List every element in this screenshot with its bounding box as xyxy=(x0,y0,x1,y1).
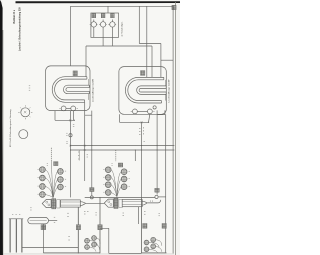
starter S3 xyxy=(108,13,116,37)
hatched strip xyxy=(52,199,56,209)
bottom right holder cluster xyxy=(142,197,167,253)
funnel xyxy=(42,200,51,208)
starter box xyxy=(91,13,119,37)
bus y46 xyxy=(86,45,152,47)
svg-text:an Vorschaltger.: an Vorschaltger. xyxy=(121,21,124,36)
wire: top to starter box xyxy=(107,6,109,13)
terminal circle right rail lower xyxy=(155,195,158,198)
scan left black edge xyxy=(0,0,3,255)
junction lamp1 xyxy=(69,119,75,121)
hatched label below pill xyxy=(41,225,46,230)
scan top black line xyxy=(16,1,181,3)
exit wires xyxy=(80,202,86,206)
lamp holders box 2 xyxy=(131,109,155,114)
label on right drop xyxy=(155,188,159,192)
assorted annotation specks xyxy=(12,86,160,216)
connector assembly right xyxy=(104,198,161,208)
svg-text:Beiblatt 30 a: Beiblatt 30 a xyxy=(13,9,16,23)
page right border xyxy=(174,2,177,255)
wire: lamp2 right hook xyxy=(157,110,165,114)
hatched strip xyxy=(114,198,118,208)
wire: top vertical into lamp box 2 xyxy=(146,6,148,77)
tiny pin number specks left fan xyxy=(38,164,67,195)
wire: box1 left drop to junction xyxy=(55,111,75,121)
bus y43.5 with corner down xyxy=(139,44,161,78)
wire: lamp2 junction drop xyxy=(141,122,143,197)
junction lamp2 xyxy=(141,121,150,123)
fluorescent U-tube lamp 2 xyxy=(125,77,166,103)
bottom middle holder cluster xyxy=(43,213,141,253)
wire: bus corner down into lamp box 1 xyxy=(85,46,87,77)
lamp box 2 xyxy=(119,67,166,115)
wire: second feed lamp box 2 xyxy=(151,46,153,77)
starter S2 xyxy=(99,13,107,37)
symbol: plain circle xyxy=(19,130,28,139)
wire: lamp1 bottom arm long drop xyxy=(84,102,86,181)
wire: right assembly drop xyxy=(138,207,140,224)
svg-text:Leuchte f. Beleuchtungseinrich: Leuchte f. Beleuchtungseinrichtung 539 xyxy=(18,7,21,51)
wire: hook drop to bottom bus xyxy=(91,115,93,196)
fan left: pin circles xyxy=(40,167,64,198)
label on hook drop xyxy=(90,188,94,192)
junction dots on buses xyxy=(70,145,158,151)
terminal circle on bottom bus xyxy=(90,196,93,199)
connector assembly left xyxy=(42,199,104,209)
svg-text:BV 97a Bl.1 Beleuchtungseinr.: BV 97a Bl.1 Beleuchtungseinr. Steuerwg. xyxy=(9,109,12,147)
label square in box 2 xyxy=(141,71,145,76)
label square in box 1 xyxy=(73,71,77,76)
junction marks on buses xyxy=(70,145,86,151)
wire: right bus drop xyxy=(134,150,136,161)
terminal circle on main rail xyxy=(69,134,72,137)
wire: top vertical to bus xyxy=(138,6,140,43)
fluorescent U-tube lamp 1 xyxy=(52,77,89,103)
frame top line xyxy=(71,6,174,253)
wire: holder drop lamp1 xyxy=(73,111,75,121)
wire: mid vertical drop xyxy=(99,197,101,253)
bottom-left wire run xyxy=(22,246,78,248)
mid bus 2 xyxy=(71,149,175,151)
ticks column left xyxy=(78,151,80,161)
wire: starter2 drop xyxy=(102,37,104,46)
wire: main vertical continues through junction xyxy=(70,111,72,198)
fan right: pin circles xyxy=(105,167,127,196)
fan left: wires xyxy=(45,161,57,199)
pill component xyxy=(28,217,57,224)
svg-text:Leuchtstofflampe 1x40W: Leuchtstofflampe 1x40W xyxy=(168,80,171,103)
symbol: lamp circle with rays xyxy=(18,105,32,119)
page background xyxy=(0,0,180,255)
funnel xyxy=(104,199,113,207)
wire: left assembly drop xyxy=(77,207,79,253)
wire: main left vertical from top xyxy=(70,6,72,66)
starter S1 xyxy=(90,13,98,37)
wire: pill label drop xyxy=(42,224,44,253)
shroud long rect xyxy=(122,200,142,207)
fan right: label xyxy=(118,163,122,167)
title text top-left rotated xyxy=(13,7,22,51)
dashed feed to left fan xyxy=(50,148,52,161)
fan right: wires xyxy=(111,170,121,199)
wire: right rail from box2 xyxy=(165,114,167,253)
bottom-left comb xyxy=(9,219,23,253)
svg-text:Leuchtstofflampe 1x40W: Leuchtstofflampe 1x40W xyxy=(91,79,94,102)
lamp box 1 xyxy=(46,66,90,111)
terminal circle on right rail upper xyxy=(153,106,156,109)
tiny annotation marks below assemblies xyxy=(84,212,146,216)
exit wires xyxy=(142,201,147,205)
wire: right step to inner border xyxy=(161,59,173,61)
wire: hook drop right xyxy=(156,115,158,195)
page bottom edge xyxy=(3,253,174,255)
wire: lamp1 right hook xyxy=(85,111,92,116)
fan left: label xyxy=(54,162,58,166)
lamp holders box 1 xyxy=(59,106,77,111)
wire: starter3 drop xyxy=(111,37,113,46)
annotation dashes near lamp2 drop xyxy=(139,127,144,135)
shroud long rect xyxy=(61,200,81,207)
mid bus 1 xyxy=(71,145,175,147)
bottom bus xyxy=(85,196,155,198)
wire: holder drop lamp2 xyxy=(149,114,150,123)
wire: box2 left drop to junction xyxy=(120,114,149,122)
frame corner label xyxy=(172,5,176,9)
tiny pin number specks right fan xyxy=(103,164,130,193)
